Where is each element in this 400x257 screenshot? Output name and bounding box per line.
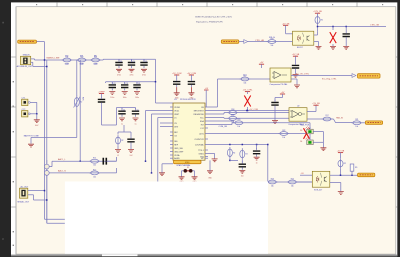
svg-text:R9: R9 (355, 167, 357, 169)
svg-text:R18: R18 (231, 109, 234, 111)
svg-text:10n: 10n (241, 176, 244, 178)
svg-text:R19: R19 (231, 115, 234, 117)
svg-text:10k: 10k (237, 126, 240, 128)
svg-text:10k: 10k (282, 137, 285, 139)
svg-text:CLK/NTCR: CLK/NTCR (194, 139, 204, 141)
svg-text:MTA30_OUT: MTA30_OUT (18, 201, 30, 204)
svg-text:VBST: VBST (174, 114, 180, 116)
svg-text:+12V_SB: +12V_SB (313, 11, 322, 13)
svg-text:100n: 100n (123, 97, 127, 99)
svg-text:C8: C8 (138, 83, 140, 85)
svg-text:L1: L1 (117, 155, 119, 157)
svg-text:SEL: SEL (174, 141, 178, 143)
svg-text:R2: R2 (321, 20, 323, 22)
svg-text:R2: R2 (233, 152, 235, 154)
svg-text:600R: 600R (93, 64, 98, 66)
svg-text:AL_OUT: AL_OUT (21, 185, 30, 188)
svg-text:100n: 100n (110, 97, 114, 99)
svg-text:470n: 470n (142, 75, 146, 77)
svg-text:R21 1k: R21 1k (269, 37, 275, 39)
svg-text:1u: 1u (135, 123, 137, 125)
svg-text:AAC1_L: AAC1_L (58, 158, 66, 161)
svg-text:+5V_SB: +5V_SB (292, 54, 300, 56)
svg-text:SOK-217: SOK-217 (314, 190, 323, 192)
svg-text:EPAD: EPAD (185, 161, 190, 164)
svg-text:R14: R14 (93, 158, 96, 160)
svg-text:R2: R2 (344, 163, 346, 165)
svg-text:10k: 10k (93, 165, 96, 167)
svg-text:VDDM: VDDM (174, 107, 180, 109)
svg-text:10k: 10k (271, 45, 274, 47)
svg-text:BOM: IF=10mA V1=1.8V, CTR = 50: BOM: IF=10mA V1=1.8V, CTR = 50% (195, 15, 232, 18)
svg-text:R21: R21 (355, 119, 358, 121)
svg-text:GND_SEL: GND_SEL (174, 148, 183, 150)
svg-text:Comparator PK-2AL: Comparator PK-2AL (270, 83, 289, 86)
svg-text:10k: 10k (244, 82, 247, 84)
svg-text:CLK/NTAL: CLK/NTAL (195, 143, 204, 146)
svg-text:Comparator PK-2: Comparator PK-2 (288, 123, 304, 126)
svg-text:2u2: 2u2 (130, 155, 133, 157)
svg-text:GND_REF: GND_REF (174, 151, 184, 153)
svg-text:LX2: LX2 (200, 128, 203, 130)
svg-text:600R: 600R (65, 64, 70, 66)
svg-text:CY2: CY2 (22, 109, 26, 111)
svg-text:CY1: CY1 (22, 98, 26, 100)
svg-text:VDDA: VDDA (174, 154, 180, 157)
svg-text:+5V_CTRL: +5V_CTRL (243, 90, 254, 92)
svg-text:CTRL_SB: CTRL_SB (370, 25, 380, 27)
svg-text:AAC1_N: AAC1_N (58, 170, 66, 173)
svg-text:R20: R20 (237, 119, 240, 121)
svg-text:+5V_COM: +5V_COM (172, 73, 182, 75)
svg-text:TTVL1: TTVL1 (198, 150, 204, 152)
svg-text:10k: 10k (355, 126, 358, 128)
svg-text:Ess_Reg_CTRL: Ess_Reg_CTRL (322, 79, 337, 81)
svg-text:CTRL_AN: CTRL_AN (255, 39, 265, 42)
svg-text:C8: C8 (126, 83, 128, 85)
svg-text:+5V_SB: +5V_SB (282, 23, 290, 25)
svg-text:C3: C3 (133, 61, 135, 63)
svg-text:R17: R17 (325, 115, 328, 117)
svg-text:REG/MODE: REG/MODE (194, 114, 205, 116)
svg-text:U2: U2 (297, 106, 299, 108)
svg-text:MTA-IN: MTA-IN (23, 54, 30, 57)
svg-text:SCL: SCL (200, 117, 204, 119)
svg-text:1u: 1u (121, 123, 123, 125)
svg-text:1n: 1n (256, 162, 258, 164)
svg-text:EL817: EL817 (297, 47, 304, 49)
svg-text:R23: R23 (271, 178, 274, 180)
svg-text:BFC: BFC (174, 132, 178, 134)
svg-text:GND5: GND5 (199, 153, 204, 155)
svg-text:AGND: AGND (174, 157, 180, 160)
svg-text:C3: C3 (120, 61, 122, 63)
svg-text:+5V_COM: +5V_COM (249, 109, 258, 111)
svg-text:FB1: FB1 (80, 55, 83, 57)
svg-text:LDO5: LDO5 (199, 133, 204, 135)
svg-text:C3: C3 (145, 61, 147, 63)
svg-text:D5: D5 (187, 167, 189, 169)
svg-text:Equivalent = PS2801/TLP5: Equivalent = PS2801/TLP5 (196, 20, 223, 23)
svg-text:10k: 10k (291, 185, 294, 187)
svg-text:R24: R24 (291, 178, 294, 180)
svg-text:10k: 10k (93, 176, 96, 178)
svg-text:MAINS_LINE: MAINS_LINE (47, 57, 61, 60)
svg-text:R2: R2 (121, 140, 123, 142)
svg-text:D3: D3 (300, 130, 302, 132)
svg-text:EARTH TO LINE: EARTH TO LINE (24, 135, 40, 138)
svg-text:FB1: FB1 (65, 55, 68, 57)
svg-text:+VREF: +VREF (98, 92, 105, 94)
svg-text:MFIO/TEST: MFIO/TEST (194, 110, 205, 112)
svg-text:R22: R22 (282, 130, 285, 132)
svg-text:+5V_SB: +5V_SB (337, 151, 345, 153)
svg-text:FAN_IN: FAN_IN (336, 116, 343, 119)
svg-text:FB1: FB1 (94, 55, 97, 57)
svg-text:10k: 10k (271, 185, 274, 187)
svg-text:100n: 100n (135, 97, 139, 99)
svg-text:R14: R14 (243, 74, 246, 76)
svg-text:+5V_COM: +5V_COM (187, 73, 197, 75)
svg-text:D4: D4 (300, 141, 302, 143)
svg-text:COM_SB: COM_SB (219, 126, 228, 128)
svg-text:C5: C5 (137, 110, 139, 112)
svg-text:PF7004-SSOP28: PF7004-SSOP28 (180, 99, 196, 101)
svg-text:C5: C5 (123, 110, 125, 112)
svg-text:RV1: RV1 (82, 97, 84, 100)
svg-text:R2: R2 (246, 154, 248, 156)
svg-text:AC/LINE-IN_OUT: AC/LINE-IN_OUT (17, 65, 34, 68)
svg-text:VDDL: VDDL (174, 110, 179, 112)
svg-text:C8: C8 (113, 83, 115, 85)
svg-text:+5V_SB: +5V_SB (312, 103, 320, 105)
svg-text:R15: R15 (93, 169, 96, 171)
svg-text:470n: 470n (117, 75, 121, 77)
svg-text:470n: 470n (130, 75, 134, 77)
svg-text:AC_OK_CTRL: AC_OK_CTRL (296, 73, 310, 76)
